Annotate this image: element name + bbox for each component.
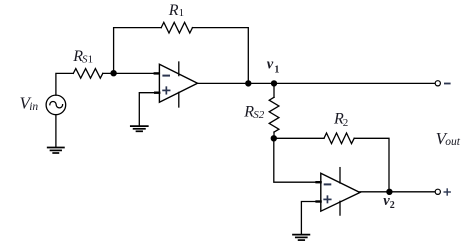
- wire op-amp U2 plus input to ground: [301, 202, 320, 235]
- svg-text:out: out: [445, 136, 461, 148]
- wire op-amp U1 output line to terminal: [198, 82, 436, 84]
- wire op-amp U1 plus input to ground: [139, 93, 159, 126]
- pin nub U2 minus: [317, 181, 321, 183]
- wire R1 to output node: [193, 28, 249, 84]
- node v1: [271, 81, 276, 86]
- op-amp U2 minus label: [325, 183, 331, 185]
- op-amp U1 plus label: [163, 87, 170, 94]
- wire RS2 to node B: [273, 132, 275, 138]
- svg-text:2: 2: [390, 200, 395, 211]
- svg-text:2: 2: [343, 117, 349, 129]
- svg-text:S2: S2: [253, 109, 265, 121]
- minus sign at upper terminal: [445, 83, 450, 85]
- pin nub U1 minus: [155, 72, 159, 74]
- pin nub U1 plus: [155, 91, 159, 93]
- svg-text:R: R: [168, 2, 179, 19]
- wire node B down to op-amp U2 minus input: [274, 138, 321, 182]
- op-amp U2 plus label: [324, 196, 331, 202]
- wire R2 to node v2: [354, 138, 389, 192]
- plus sign at lower terminal: [444, 189, 450, 195]
- svg-text:1: 1: [88, 54, 94, 66]
- terminal lower (plus): [435, 189, 440, 194]
- ground (below source): [48, 148, 64, 154]
- node B: [271, 136, 276, 141]
- svg-text:in: in: [29, 101, 38, 113]
- wire op-amp U2 output to terminal: [360, 191, 435, 193]
- resistor R2: [324, 133, 354, 144]
- ground (op-amp U1): [131, 126, 148, 131]
- node A (junction RS1 / R1): [111, 71, 116, 76]
- op-amp U1: [159, 62, 197, 107]
- pin nub U2 plus: [317, 200, 321, 202]
- svg-text:1: 1: [179, 7, 185, 19]
- wire node B to R2: [274, 137, 324, 139]
- op-amp U2: [321, 168, 360, 216]
- node v2: [387, 189, 392, 194]
- wire RS1 to op-amp minus input: [103, 72, 160, 74]
- resistor RS2 (vertical): [273, 83, 275, 97]
- node R1/output junction: [246, 81, 251, 86]
- source Vin: [46, 95, 66, 115]
- svg-text:v: v: [267, 57, 274, 73]
- terminal upper (minus): [435, 81, 440, 86]
- wire source bottom to ground: [55, 115, 57, 148]
- ground (op-amp U2): [293, 235, 309, 241]
- wire source top to RS1: [56, 73, 73, 95]
- op-amp U1 minus label: [163, 75, 169, 77]
- svg-text:1: 1: [274, 64, 279, 75]
- wire node A up to R1: [114, 28, 162, 74]
- resistor R1: [161, 22, 192, 33]
- resistor RS1: [73, 69, 103, 79]
